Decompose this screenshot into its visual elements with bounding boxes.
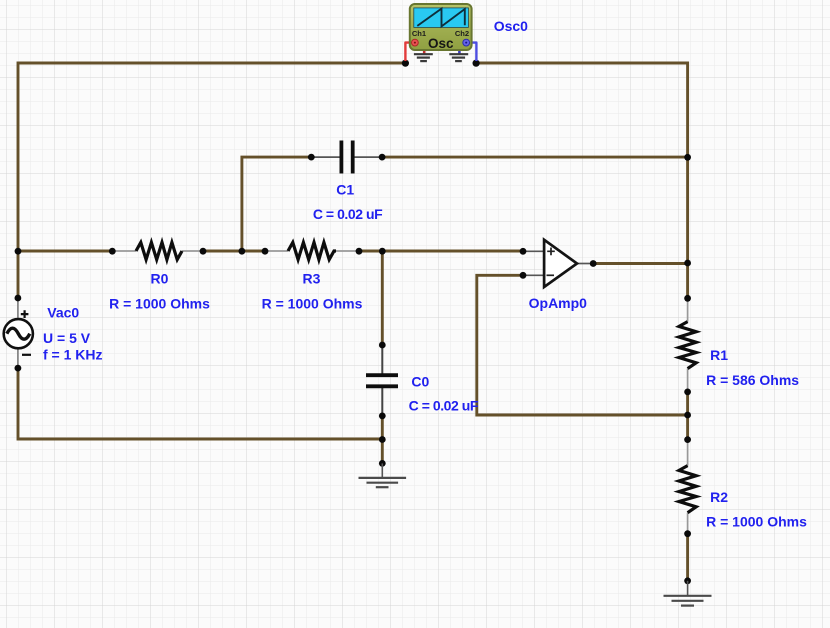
wire: C1 branch vertical and horizontal to C1 left terminal bbox=[242, 157, 311, 251]
wire: top horizontal left + left vertical upper (input net) bbox=[18, 63, 405, 298]
node: R0 right terminal bbox=[200, 248, 207, 255]
svg-text:U = 5 V: U = 5 V bbox=[43, 330, 91, 346]
resistor R2 bbox=[679, 440, 696, 534]
svg-text:R3: R3 bbox=[303, 271, 321, 287]
node: R2 bottom terminal bbox=[684, 530, 691, 537]
node: Vac0 - terminal bbox=[15, 365, 22, 372]
wire: right vertical between R1 and R2 bbox=[686, 392, 689, 440]
node: R1 top terminal bbox=[684, 295, 691, 302]
svg-text:R = 1000 Ohms: R = 1000 Ohms bbox=[109, 296, 210, 312]
resistor R3 bbox=[265, 242, 359, 259]
svg-text:R = 1000 Ohms: R = 1000 Ohms bbox=[706, 513, 807, 529]
node: op-amp - input terminal bbox=[520, 272, 527, 279]
node: op-amp output terminal bbox=[590, 260, 597, 267]
ground below R2 bbox=[664, 581, 712, 606]
wire: mid horizontal, left junction to R0 bbox=[18, 250, 112, 253]
resistor R0 bbox=[112, 242, 203, 259]
wire: C1 right terminal to right vertical bbox=[382, 156, 687, 159]
wire: mid horizontal, R0 to R3 (through C1 branch junction) bbox=[203, 250, 265, 253]
node: feedback junction on right vertical bbox=[684, 412, 691, 419]
terminal: Ch2 (blue) bbox=[463, 39, 470, 46]
node: C0 branch junction on mid wire bbox=[379, 248, 386, 255]
node: C1 branch junction on mid wire bbox=[239, 248, 246, 255]
wire: op-amp output to right vertical bbox=[593, 262, 688, 265]
wire: mid horizontal, R3 to op-amp + input (through C0 branch junction) bbox=[359, 250, 523, 253]
node: Vac0 + terminal bbox=[15, 295, 22, 302]
terminal: Ch1 (red) bbox=[412, 39, 419, 46]
node: R2 top terminal bbox=[684, 436, 691, 443]
wire: Ch1 ground stub (red) bbox=[423, 47, 426, 54]
node: C1-right junction on right vertical bbox=[684, 154, 691, 161]
svg-text:R2: R2 bbox=[710, 489, 728, 505]
node: C0 bottom terminal bbox=[379, 413, 386, 420]
node: C1 right terminal bbox=[379, 154, 386, 161]
oscilloscope Osc0 bbox=[405, 4, 476, 61]
node: Osc Ch1 probe junction on top wire bbox=[402, 60, 409, 67]
node: bottom wire junction at C0 bbox=[379, 436, 386, 443]
svg-text:C0: C0 bbox=[411, 373, 429, 389]
svg-text:f = 1 KHz: f = 1 KHz bbox=[43, 347, 103, 363]
wire: left vertical lower + bottom horizontal (Vac- to C0 junction) bbox=[18, 368, 382, 439]
node: op-amp + input terminal bbox=[520, 248, 527, 255]
node: mid-wire left junction bbox=[15, 248, 22, 255]
svg-text:C = 0.02 uF: C = 0.02 uF bbox=[313, 206, 383, 222]
svg-text:R1: R1 bbox=[710, 347, 728, 363]
AC source Vac0 bbox=[4, 298, 33, 368]
node: ground node below C0 bbox=[379, 460, 386, 467]
wire: Ch1 probe (red) bbox=[405, 43, 415, 61]
wire: Ch2 ground stub (blue) bbox=[458, 47, 461, 54]
node: R3 right terminal bbox=[356, 248, 363, 255]
ground: Osc Ch1 bbox=[414, 54, 433, 61]
svg-text:R = 586 Ohms: R = 586 Ohms bbox=[706, 372, 799, 388]
node: output junction on right vertical bbox=[684, 260, 691, 267]
wire: C0 bottom to ground node (through bottom wire junction) bbox=[381, 416, 384, 464]
capacitor C1 bbox=[311, 141, 382, 174]
op-amp U1 OpAmp0 bbox=[523, 240, 593, 287]
ground: Osc Ch2 bbox=[449, 54, 468, 61]
wire: C0 branch top (mid wire down to C0) bbox=[381, 251, 384, 345]
svg-text:Osc: Osc bbox=[428, 36, 454, 51]
node: ground node below R2 bbox=[684, 577, 691, 584]
svg-text:R0: R0 bbox=[151, 271, 169, 287]
svg-text:Osc0: Osc0 bbox=[494, 18, 528, 34]
node: Osc Ch2 probe junction on top wire bbox=[473, 60, 480, 67]
svg-text:C1: C1 bbox=[336, 181, 354, 197]
node: R1 bottom terminal bbox=[684, 389, 691, 396]
wire: right vertical below R2 to ground bbox=[686, 534, 689, 581]
wire: top horizontal right + right vertical upper (output net) bbox=[476, 63, 687, 298]
wire: Ch2 probe (blue) bbox=[466, 43, 476, 61]
node: C0 top terminal bbox=[379, 342, 386, 349]
node: C1 left terminal bbox=[308, 154, 315, 161]
svg-text:OpAmp0: OpAmp0 bbox=[529, 295, 588, 311]
capacitor C0 bbox=[366, 345, 398, 416]
resistor R1 bbox=[679, 298, 696, 392]
svg-text:R = 1000 Ohms: R = 1000 Ohms bbox=[262, 296, 363, 312]
svg-text:Vac0: Vac0 bbox=[47, 305, 79, 321]
ground below C0 bbox=[359, 463, 407, 487]
svg-text:Ch2: Ch2 bbox=[455, 29, 469, 38]
node: R0 left terminal bbox=[109, 248, 116, 255]
oscilloscope body bbox=[410, 4, 472, 50]
wire: feedback from op-amp - input down and right to R1/R2 junction bbox=[477, 275, 688, 415]
svg-text:Ch1: Ch1 bbox=[412, 29, 427, 38]
svg-text:C = 0.02 uF: C = 0.02 uF bbox=[409, 398, 479, 414]
node: R3 left terminal bbox=[262, 248, 269, 255]
oscilloscope screen with sawtooth bbox=[414, 8, 469, 28]
